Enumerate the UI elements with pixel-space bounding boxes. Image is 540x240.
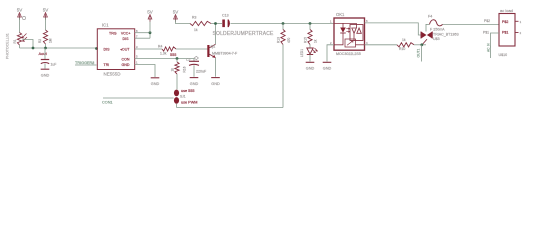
connector right stub 2 — [515, 32, 519, 34]
ground (Q2) — [211, 77, 220, 79]
wire R3 to C11 — [211, 23, 222, 25]
Q2 collector — [210, 44, 216, 48]
svg-text:C13: C13 — [222, 14, 229, 18]
svg-text:6: 6 — [366, 19, 368, 23]
junction R15 — [309, 22, 312, 25]
opto internal LED — [342, 23, 344, 27]
wire collector to top rail — [215, 24, 217, 45]
svg-text:P$2: P$2 — [502, 20, 508, 24]
svg-text:MMBT3904-7-F: MMBT3904-7-F — [212, 51, 238, 55]
power symbol 5V (IC) — [148, 15, 152, 20]
junction open circle — [22, 16, 25, 19]
svg-text:OUT1: OUT1 — [417, 49, 421, 58]
wire stub load — [421, 45, 423, 62]
capacitor C11 polarized series — [222, 20, 225, 28]
svg-text:U$3: U$3 — [433, 37, 440, 41]
junction wiper-node — [32, 47, 35, 50]
svg-text:ac load: ac load — [500, 8, 513, 13]
wire OUT pin to R4 — [135, 48, 162, 50]
svg-text:5V: 5V — [147, 9, 153, 14]
svg-text:R3: R3 — [192, 16, 196, 20]
wire CON rail — [135, 58, 194, 60]
capacitor C1 — [44, 48, 46, 59]
connector U$10 box — [499, 14, 515, 47]
wire GND pin of IC — [135, 65, 155, 78]
ground (IC) — [151, 77, 160, 79]
svg-text:1: 1 — [520, 20, 522, 24]
resistor R15 — [309, 24, 311, 30]
op-amp IC1 NE555 box — [97, 29, 134, 70]
svg-text:1: 1 — [330, 19, 332, 23]
wire 5V to photocell — [19, 18, 21, 33]
ground (LED1) — [306, 61, 315, 63]
ground (C2) — [190, 77, 199, 79]
power symbol 5V (photocell branch) — [18, 13, 22, 18]
svg-text:470: 470 — [287, 37, 291, 43]
triac U$3 — [421, 32, 427, 39]
svg-text:R2: R2 — [38, 39, 42, 43]
svg-text:TRIAC_BT136S: TRIAC_BT136S — [433, 32, 459, 36]
svg-text:220uF: 220uF — [196, 70, 207, 74]
connector right stub 1 — [515, 20, 519, 22]
svg-text:LED1: LED1 — [300, 49, 304, 57]
wire R4 to Q2 base — [176, 48, 208, 50]
wire jumper select — [103, 97, 174, 99]
ground (opto) — [323, 61, 332, 63]
svg-text:CON1: CON1 — [102, 100, 113, 104]
C2 polarity mark — [194, 56, 198, 59]
svg-text:TRG: TRG — [109, 32, 117, 36]
photocell light arrows — [22, 34, 27, 42]
svg-text:2: 2 — [520, 31, 522, 35]
svg-text:IC1: IC1 — [102, 23, 109, 28]
resistor R3 — [190, 21, 211, 25]
junction triac gate node — [420, 43, 423, 46]
svg-text:5V: 5V — [43, 7, 49, 12]
wire fuse to connector — [443, 23, 499, 25]
svg-text:4: 4 — [366, 41, 368, 45]
wire opto out to triac — [365, 23, 422, 35]
svg-text:use 555: use 555 — [181, 89, 195, 93]
svg-text:U$10: U$10 — [499, 53, 508, 57]
junction collector rail — [214, 22, 217, 25]
svg-text:DIS: DIS — [123, 37, 130, 41]
power symbol 5V (top rail) — [174, 15, 178, 20]
svg-text:TRI: TRI — [104, 63, 110, 67]
opto zero-cross box — [345, 39, 356, 47]
svg-text:R4: R4 — [158, 45, 162, 49]
svg-text:R10: R10 — [399, 47, 405, 51]
wire trigger node to IC — [20, 47, 97, 49]
ground (C1) — [41, 68, 50, 70]
svg-text:NE555D: NE555D — [104, 72, 122, 77]
svg-text:VCC+: VCC+ — [121, 32, 131, 36]
junction divider-node — [44, 47, 47, 50]
svg-text:SJ1: SJ1 — [180, 94, 186, 98]
junction at IC pin — [95, 47, 98, 50]
junction R13 — [282, 22, 285, 25]
svg-text:1.3k: 1.3k — [160, 51, 167, 55]
wire jumper bottom to rail — [176, 104, 178, 108]
wire R2 to node — [45, 44, 47, 48]
wire photocell to node — [19, 45, 21, 48]
wire TRIGGER stub — [75, 64, 97, 66]
svg-text:Q2: Q2 — [211, 44, 216, 48]
photocell R1 — [17, 33, 21, 46]
wire R10 to triac node — [414, 44, 426, 46]
wire opto cathode to ground — [327, 45, 334, 62]
junction R16 top — [176, 57, 179, 60]
svg-text:P$2: P$2 — [484, 19, 490, 23]
wire R16 to jumper — [176, 74, 178, 90]
opto emission arrows — [346, 28, 349, 33]
opto internal bottom-right wire — [356, 44, 365, 46]
svg-text:R1: R1 — [13, 39, 17, 43]
svg-text:GND: GND — [122, 63, 130, 67]
resistor R13 — [282, 24, 284, 30]
svg-text:C2: C2 — [186, 58, 190, 62]
svg-text:1k: 1k — [171, 68, 175, 72]
svg-text:R13: R13 — [277, 37, 281, 43]
opto internal top wire — [334, 22, 357, 24]
wire 5V to rail — [176, 20, 191, 24]
svg-text:OK1: OK1 — [336, 12, 345, 17]
svg-text:P$1: P$1 — [502, 31, 508, 35]
svg-text:1k: 1k — [194, 28, 198, 32]
transistor Q2 base bar — [207, 45, 209, 57]
svg-text:1uF: 1uF — [51, 63, 57, 67]
wire bottom rail — [177, 107, 284, 109]
wire VCC+ pin to 5V — [135, 32, 150, 34]
LED LED1 — [307, 48, 313, 54]
svg-text:MOC3022L2S5: MOC3022L2S5 — [336, 52, 361, 56]
svg-text:PHOTOCELL01: PHOTOCELL01 — [6, 33, 10, 59]
wire 5V to R2 — [45, 18, 47, 31]
svg-text:R15: R15 — [304, 37, 308, 43]
optocoupler OK1 box — [334, 18, 365, 50]
resistor R10 — [397, 43, 414, 47]
svg-text:R16: R16 — [183, 66, 187, 72]
svg-text:GND: GND — [211, 82, 220, 86]
svg-text:DIS: DIS — [104, 48, 111, 52]
svg-text:use PWM: use PWM — [181, 100, 197, 104]
wire C2 to ground — [193, 65, 195, 77]
wire opto gate to R10 — [365, 44, 398, 46]
wire emitter to ground — [215, 58, 217, 77]
opto triac box — [350, 25, 363, 41]
fuse F4 — [430, 20, 443, 26]
resistor R4 — [162, 47, 176, 51]
wire DIS pin to 5V — [135, 37, 150, 39]
capacitor C2 220uF — [193, 59, 195, 62]
svg-text:P$1: P$1 — [483, 31, 489, 35]
svg-text:F4: F4 — [428, 15, 432, 19]
wire LED1 to ground — [309, 55, 311, 62]
solder jumper SJ1 pad top — [174, 90, 179, 97]
svg-text:GND: GND — [306, 67, 315, 71]
wire 5V riser — [149, 33, 151, 39]
resistor R2 — [43, 30, 47, 44]
Q2 emitter with arrow — [210, 54, 216, 58]
solder jumper SJ1 pad bottom — [174, 97, 179, 104]
svg-text:AC_N: AC_N — [486, 43, 490, 52]
svg-text:1M: 1M — [49, 38, 53, 43]
svg-text:SOLDERJUMPERTRACE: SOLDERJUMPERTRACE — [213, 31, 275, 37]
svg-text:GND: GND — [323, 67, 332, 71]
svg-text:555: 555 — [170, 53, 176, 57]
wire C11 to opto rail — [231, 22, 335, 24]
svg-text:Aout: Aout — [39, 51, 48, 56]
svg-text:1k: 1k — [402, 38, 406, 42]
wire C1 to ground — [44, 64, 46, 69]
svg-text:F 250mA: F 250mA — [430, 28, 445, 32]
photocell wiper wire — [23, 40, 34, 49]
wire R13 to bottom rail — [282, 45, 284, 108]
svg-text:5V: 5V — [173, 9, 179, 14]
wire neutral from connector — [491, 33, 500, 58]
svg-text:1k: 1k — [314, 39, 318, 43]
svg-text:2: 2 — [330, 41, 332, 45]
wire triac to fuse — [425, 24, 427, 31]
svg-text:GND: GND — [190, 82, 199, 86]
wire R15 to LED1 — [309, 45, 311, 49]
svg-text:GND: GND — [151, 82, 160, 86]
power symbol 5V (divider branch) — [44, 13, 48, 18]
svg-text:◂OUT: ◂OUT — [120, 48, 130, 52]
resistor R16 — [176, 59, 178, 63]
svg-text:GND: GND — [41, 74, 50, 78]
junction VCC — [149, 31, 152, 34]
svg-text:CON: CON — [122, 58, 130, 62]
svg-text:5V: 5V — [17, 7, 23, 12]
triac gate lead — [422, 39, 427, 45]
opto triac element — [356, 23, 358, 28]
